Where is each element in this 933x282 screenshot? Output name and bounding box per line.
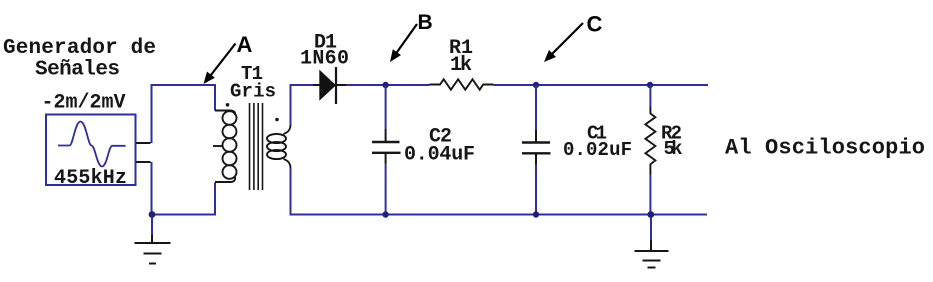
- sine wave symbol inside generator: [58, 122, 126, 167]
- transformer T1 primary winding: [215, 111, 237, 183]
- wire transformer secondary top lead: [290, 84, 292, 125]
- arrow to node A: [204, 44, 236, 85]
- svg-text:Gris: Gris: [230, 81, 276, 103]
- title label "Generador de Señales": [3, 37, 156, 82]
- transformer T1 primary center tap stub: [213, 145, 223, 147]
- svg-text:0.04uF: 0.04uF: [404, 144, 475, 167]
- wire generator top terminal to node A riser: [151, 85, 153, 143]
- resistor R2: [645, 107, 655, 175]
- svg-text:1N60: 1N60: [300, 48, 349, 71]
- transformer T1 secondary winding: [267, 125, 291, 169]
- junction dot output ground node: [647, 211, 654, 218]
- wire secondary bottom rail to output ground run: [290, 214, 708, 216]
- svg-text:5k: 5k: [664, 138, 683, 160]
- signal generator source box: [46, 115, 136, 186]
- ground GND right: [635, 217, 669, 268]
- diode D1: [313, 67, 347, 104]
- svg-text:Generador de: Generador de: [3, 37, 156, 60]
- capacitor C1: [522, 130, 551, 165]
- capacitor C1 bottom lead: [535, 165, 537, 215]
- svg-text:-2m/2mV: -2m/2mV: [42, 92, 126, 115]
- svg-text:C: C: [587, 12, 603, 37]
- transformer T1 primary polarity dot: [226, 103, 230, 107]
- junction dot generator ground node: [149, 211, 156, 218]
- arrow to node B: [390, 24, 417, 62]
- svg-text:B: B: [418, 11, 433, 34]
- wire secondary top to diode: [290, 84, 314, 86]
- svg-text:Señales: Señales: [35, 59, 120, 82]
- resistor R2 bottom lead: [649, 175, 651, 215]
- junction dot node B top: [382, 82, 388, 88]
- resistor R1: [430, 79, 494, 89]
- wire node A horizontal to transformer primary: [151, 84, 216, 86]
- capacitor C1 top lead: [535, 85, 537, 130]
- wire transformer secondary bottom lead: [290, 168, 292, 216]
- wire transformer primary top lead: [214, 84, 216, 111]
- arrow to node C: [544, 23, 583, 62]
- svg-text:Al Osciloscopio: Al Osciloscopio: [725, 136, 925, 161]
- svg-text:0.02uF: 0.02uF: [563, 139, 632, 161]
- wire transformer primary bottom lead: [214, 183, 216, 216]
- wire diode cathode to node B: [347, 84, 430, 86]
- transformer T1 core: [250, 103, 263, 190]
- wire R1 to node C: [494, 84, 651, 86]
- junction dot node C top: [533, 82, 539, 88]
- junction dot node C bottom rail: [533, 211, 539, 217]
- wire primary bottom rail: [151, 214, 216, 216]
- capacitor C2 top lead: [385, 85, 387, 129]
- transformer T1 secondary polarity dot: [275, 118, 279, 122]
- capacitor C2: [372, 129, 401, 164]
- svg-text:455kHz: 455kHz: [54, 167, 127, 190]
- generator top terminal stub: [136, 142, 151, 144]
- svg-text:1k: 1k: [450, 54, 472, 77]
- wire node C to R2 node: [650, 84, 708, 86]
- junction dot node B bottom rail: [382, 211, 388, 217]
- capacitor C2 bottom lead: [385, 164, 387, 215]
- ground GND left: [135, 217, 171, 264]
- svg-text:A: A: [237, 32, 253, 57]
- wire generator bottom terminal down: [151, 162, 153, 215]
- generator bottom terminal stub: [136, 161, 151, 163]
- junction dot R2 top node: [647, 82, 653, 88]
- resistor R2 top lead: [649, 85, 651, 107]
